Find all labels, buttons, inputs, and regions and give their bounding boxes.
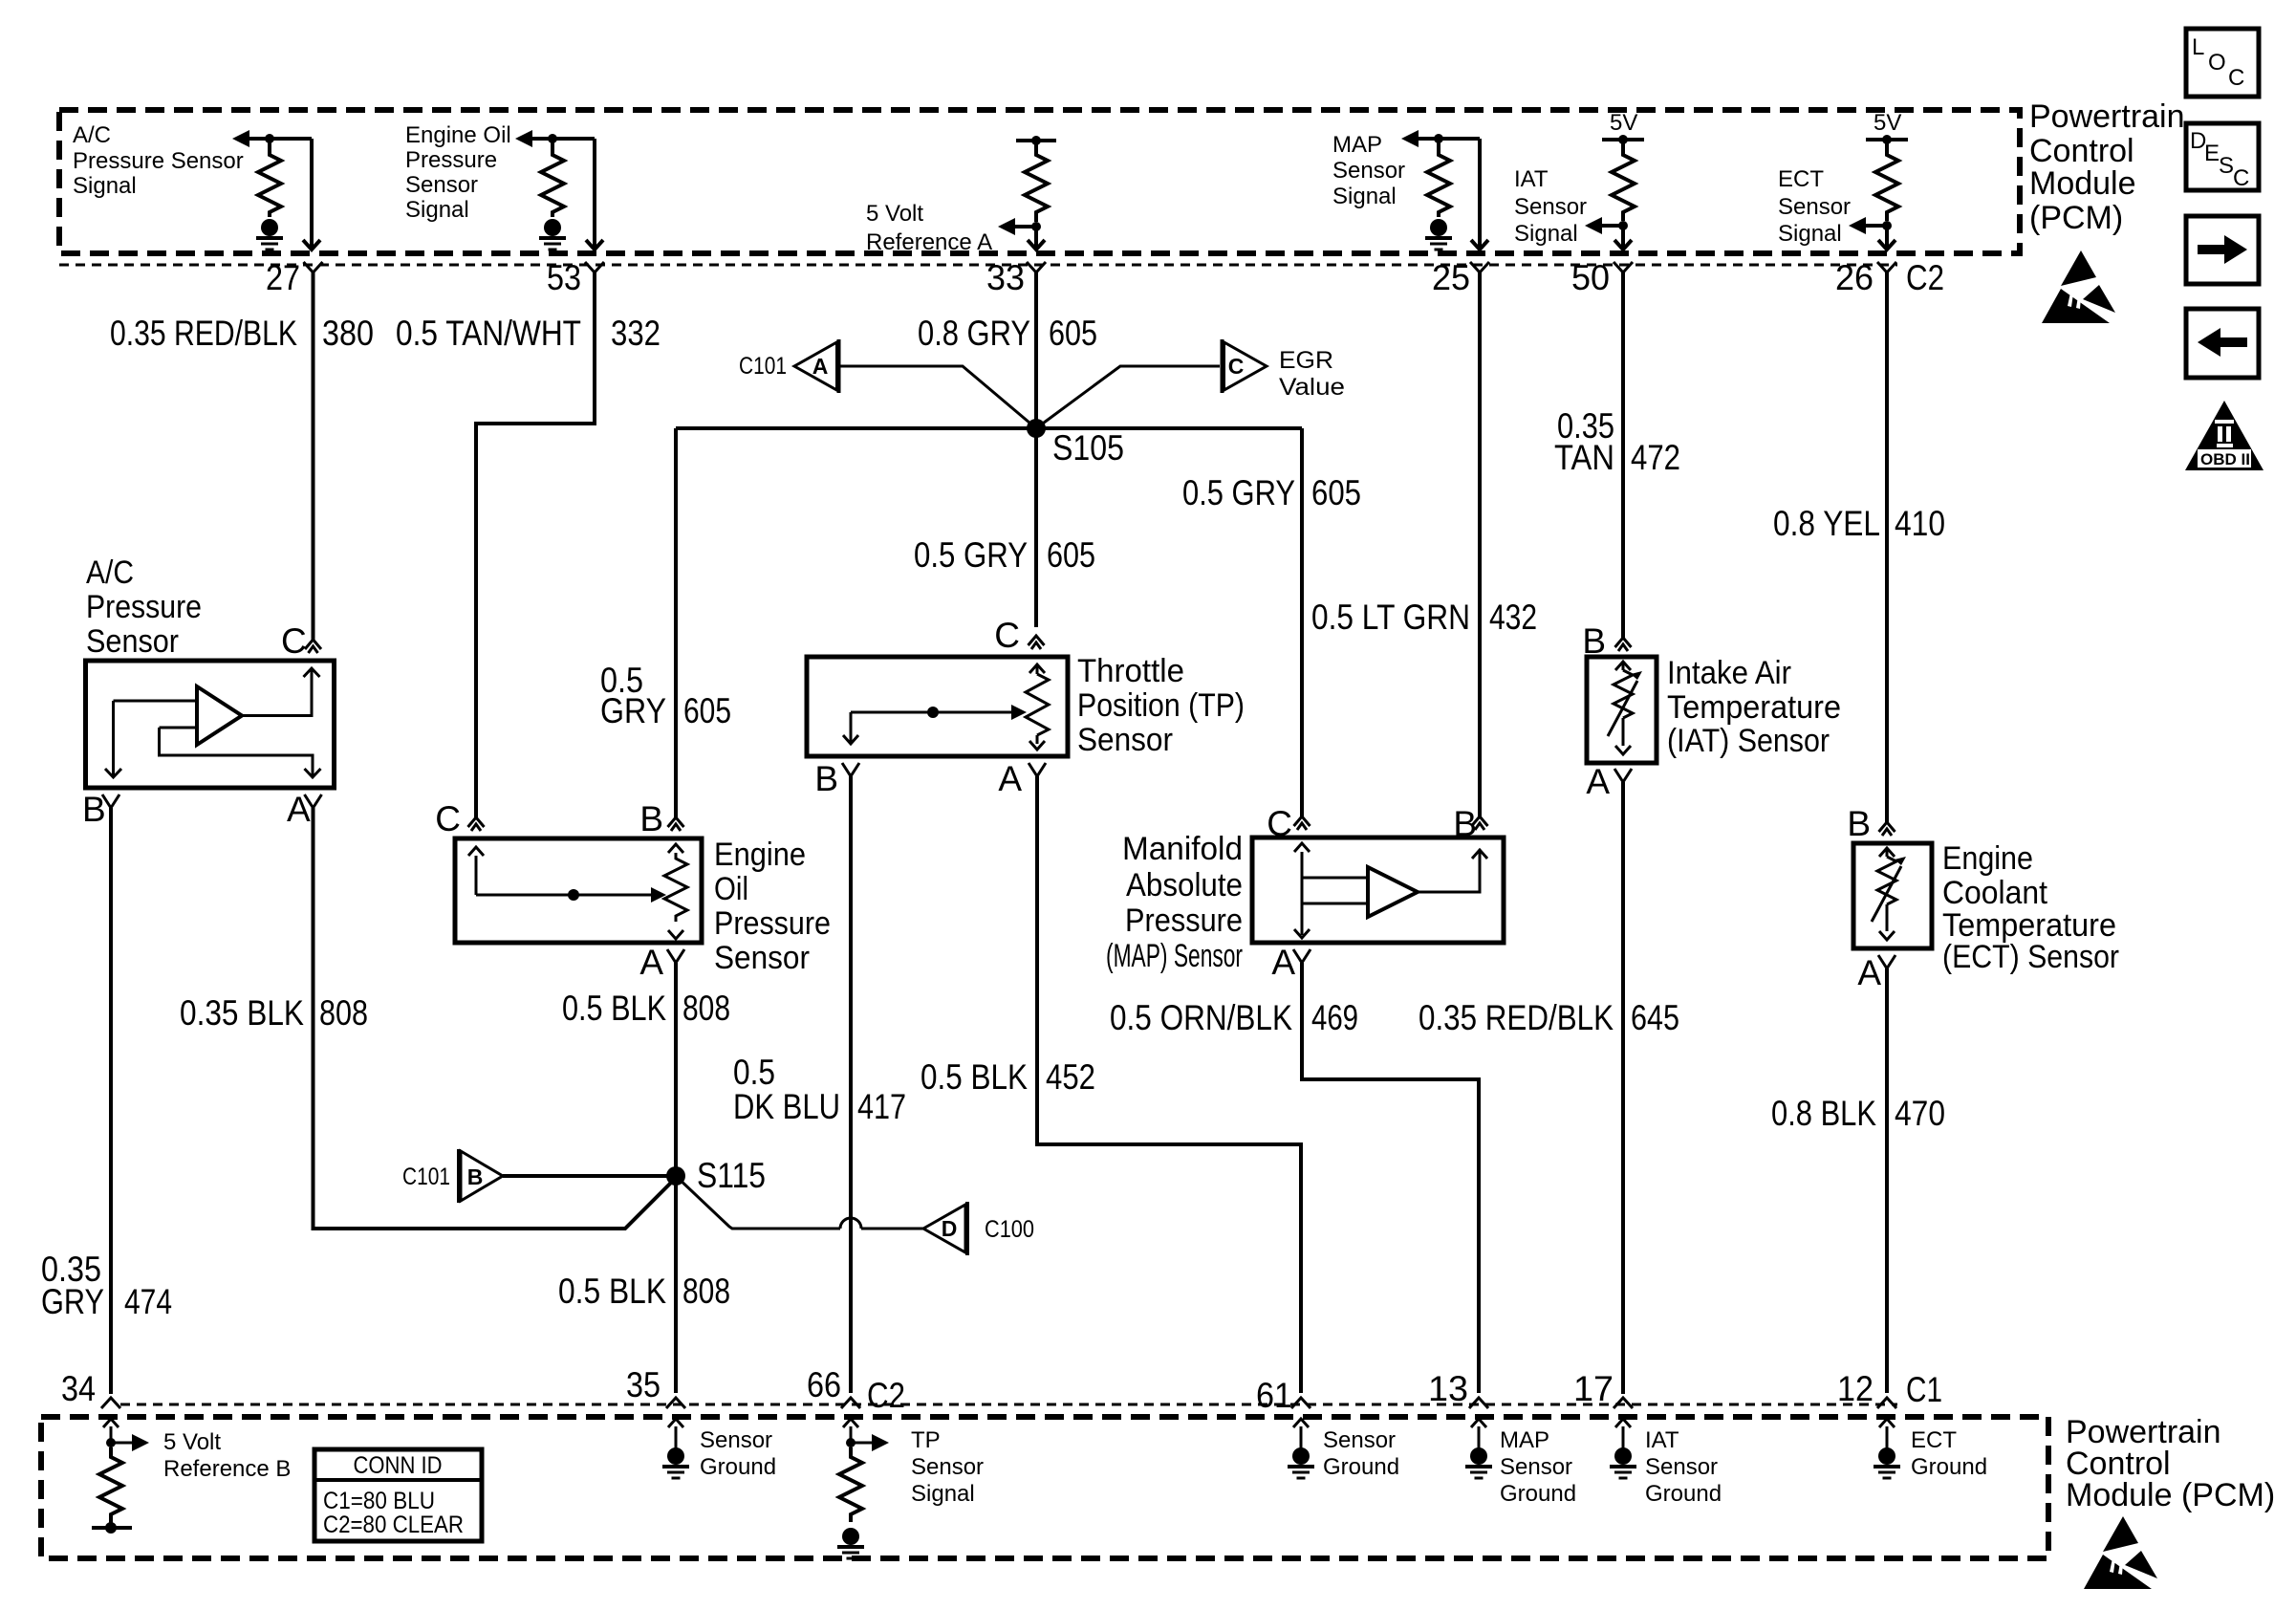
ground for R-AC — [256, 219, 283, 250]
svg-text:C: C — [435, 799, 461, 838]
svg-text:808: 808 — [682, 989, 730, 1028]
svg-text:25: 25 — [1432, 258, 1470, 297]
svg-text:0.35 RED/BLK: 0.35 RED/BLK — [1419, 998, 1614, 1037]
svg-text:452: 452 — [1046, 1057, 1095, 1097]
pin 12 ECT ground symbol — [1874, 1419, 1987, 1480]
svg-text:34: 34 — [61, 1369, 96, 1408]
svg-text:5V: 5V — [1874, 110, 1901, 136]
svg-text:Engine Oil: Engine Oil — [405, 122, 511, 148]
svg-text:808: 808 — [319, 993, 368, 1033]
wire TP B to pin 66 — [849, 776, 853, 1393]
wire A/C B to pin 34 — [109, 808, 113, 1394]
svg-text:605: 605 — [1049, 314, 1097, 353]
svg-text:5V: 5V — [1610, 110, 1637, 136]
pin 12 — [1837, 1369, 1896, 1408]
svg-text:469: 469 — [1311, 998, 1358, 1037]
svg-text:53: 53 — [547, 258, 581, 297]
label 0.5 GRY 605 (MAP C) — [1182, 473, 1361, 512]
svg-text:Manifold: Manifold — [1122, 831, 1243, 867]
pin 61 — [1256, 1376, 1310, 1415]
wire pin33 to S105 — [1034, 272, 1038, 428]
svg-text:Sensor: Sensor — [700, 1427, 772, 1453]
svg-text:Module (PCM): Module (PCM) — [2066, 1477, 2275, 1513]
svg-text:C2: C2 — [1906, 258, 1944, 297]
svg-text:Sensor: Sensor — [1077, 722, 1173, 758]
svg-text:S: S — [2219, 153, 2234, 179]
svg-text:5 Volt: 5 Volt — [163, 1429, 221, 1455]
connector C100 terminal D triangle — [923, 1202, 1034, 1255]
svg-text:C100: C100 — [985, 1216, 1034, 1243]
wire EGR to S105 — [1036, 366, 1220, 428]
Engine Oil sensor title — [714, 837, 831, 976]
IAT sensor title — [1667, 655, 1841, 759]
label 0.5 GRY 605 (EO B) — [600, 661, 731, 730]
svg-text:B: B — [639, 799, 663, 838]
pin 66 TP sensor signal resistor and ground — [837, 1419, 984, 1558]
TP sensor pin C — [994, 616, 1044, 655]
ground for R-MAP — [1425, 219, 1452, 250]
svg-text:Temperature: Temperature — [1667, 689, 1841, 726]
svg-text:A/C: A/C — [86, 555, 134, 591]
label 0.35 BLK 808 — [180, 993, 368, 1033]
TP sensor pin A — [998, 759, 1046, 798]
svg-text:417: 417 — [857, 1087, 906, 1126]
MAP sensor title — [1106, 831, 1243, 974]
A/C sensor amplifier U-AC — [105, 668, 321, 777]
svg-text:Sensor: Sensor — [1514, 194, 1587, 220]
A/C pressure sensor signal text — [73, 122, 244, 199]
svg-text:61: 61 — [1256, 1376, 1292, 1415]
wire pin50 to IAT sensor B — [1621, 272, 1625, 638]
svg-text:Engine: Engine — [1942, 840, 2033, 877]
svg-text:605: 605 — [683, 691, 731, 730]
label 0.5 BLK 808 (S115 to 35) — [558, 1272, 730, 1311]
A/C sensor pin A — [287, 790, 322, 829]
splice S105 — [1027, 419, 1124, 468]
A/C Pressure Sensor title — [86, 555, 202, 660]
TP sensor pin B — [814, 759, 859, 798]
svg-text:Signal: Signal — [73, 173, 137, 199]
svg-text:Sensor: Sensor — [714, 940, 810, 976]
OBD II triangle icon — [2185, 401, 2264, 470]
svg-text:O: O — [2208, 50, 2226, 76]
svg-text:Ground: Ground — [1323, 1454, 1399, 1480]
label 0.5 GRY 605 (TP C) — [914, 535, 1095, 575]
svg-text:Sensor: Sensor — [1332, 158, 1405, 184]
svg-text:Position (TP): Position (TP) — [1077, 687, 1245, 724]
pin 34 — [61, 1369, 120, 1408]
5 Volt Reference A text — [866, 201, 992, 255]
ECT sensor signal text — [1778, 166, 1851, 247]
IAT thermistor — [1608, 662, 1642, 754]
wire C101-A to S105 — [840, 366, 1036, 428]
svg-text:Ground: Ground — [1645, 1481, 1722, 1507]
svg-text:27: 27 — [266, 258, 300, 297]
svg-text:808: 808 — [682, 1272, 730, 1311]
MAP signal pull-up resistor R-MAP in PCM — [1401, 130, 1480, 217]
svg-text:ECT: ECT — [1778, 166, 1824, 192]
ECT sensor title — [1942, 840, 2119, 975]
5V supply and resistor R-ECT in PCM — [1849, 110, 1908, 234]
svg-text:A: A — [1271, 943, 1295, 982]
svg-text:(PCM): (PCM) — [2029, 200, 2123, 236]
wire to pin 27 with down arrow — [303, 139, 320, 250]
right-arrow legend box — [2186, 216, 2259, 284]
Engine oil pressure sensor signal text — [405, 122, 511, 223]
svg-text:26: 26 — [1835, 258, 1874, 297]
ESD symbol bottom right — [2084, 1516, 2157, 1589]
svg-text:Ground: Ground — [700, 1454, 776, 1480]
CONN ID table — [314, 1449, 482, 1541]
label 0.35 RED/BLK 645 — [1419, 998, 1679, 1037]
svg-text:332: 332 — [611, 314, 661, 353]
pin 33 — [986, 258, 1046, 297]
label 0.5 BLK 808 (EO A) — [562, 989, 730, 1028]
svg-text:B: B — [814, 759, 838, 798]
IAT sensor signal text — [1514, 166, 1587, 247]
wire MAP A jog to pin 13 — [1302, 963, 1479, 1393]
svg-text:66: 66 — [807, 1365, 841, 1404]
label 0.35 TAN 472 — [1554, 406, 1680, 477]
wire pin53 jog to Engine Oil C — [476, 272, 595, 817]
svg-text:Value: Value — [1279, 374, 1345, 401]
svg-text:A: A — [998, 759, 1022, 798]
wire S115 branch to C100-D with hop over TP B wire — [676, 1176, 923, 1229]
svg-text:0.35 BLK: 0.35 BLK — [180, 993, 304, 1033]
wire S105 down to TP sensor C — [1034, 428, 1038, 627]
svg-text:C101: C101 — [739, 353, 787, 380]
svg-text:Sensor: Sensor — [1645, 1454, 1718, 1480]
svg-text:A: A — [639, 943, 663, 982]
5V reference A resistor R-33 in PCM — [998, 136, 1056, 235]
EGR Value triangle C — [1223, 339, 1346, 401]
svg-text:0.8 BLK: 0.8 BLK — [1771, 1094, 1876, 1133]
wire to pin 53 with down arrow — [586, 139, 603, 250]
pin 17 — [1573, 1369, 1633, 1408]
svg-text:Intake Air: Intake Air — [1667, 655, 1791, 691]
svg-text:0.5 GRY: 0.5 GRY — [914, 535, 1028, 575]
svg-text:12: 12 — [1837, 1369, 1874, 1408]
wire to pin 33 with down arrow — [1028, 227, 1045, 250]
MAP sensor signal text — [1332, 132, 1405, 209]
svg-text:Control: Control — [2029, 133, 2134, 169]
svg-text:0.8 YEL: 0.8 YEL — [1773, 504, 1880, 543]
svg-text:Signal: Signal — [1514, 221, 1578, 247]
svg-text:Signal: Signal — [1778, 221, 1842, 247]
label 0.5 LT GRN 432 — [1311, 598, 1537, 637]
svg-text:(IAT) Sensor: (IAT) Sensor — [1667, 723, 1830, 759]
pin 25 — [1432, 258, 1489, 297]
svg-text:IAT: IAT — [1514, 166, 1549, 192]
Manifold Absolute Pressure sensor box — [1252, 838, 1504, 943]
TP sensor internal potentiometer — [843, 664, 1049, 750]
IAT sensor pin A — [1586, 762, 1632, 801]
svg-text:0.5: 0.5 — [733, 1053, 775, 1092]
A/C pressure sensor box — [86, 661, 335, 788]
svg-text:MAP: MAP — [1332, 132, 1382, 158]
splice S115 — [666, 1156, 766, 1195]
5 Volt Reference B resistor in PCM — [92, 1419, 291, 1534]
A/C signal pull-up resistor R-AC in PCM — [232, 130, 312, 217]
pin 53 — [547, 258, 604, 297]
svg-text:13: 13 — [1428, 1369, 1468, 1408]
svg-text:Engine: Engine — [714, 837, 806, 873]
pin 35 — [626, 1365, 685, 1408]
label 0.35 RED/BLK 380 — [110, 314, 374, 353]
MAP sensor internal amplifier — [1294, 843, 1487, 938]
svg-text:S115: S115 — [697, 1156, 766, 1195]
Throttle Position sensor box — [807, 657, 1068, 756]
svg-text:Oil: Oil — [714, 871, 748, 907]
svg-text:380: 380 — [322, 314, 374, 353]
Engine Oil sensor pin A — [639, 943, 684, 982]
svg-text:GRY: GRY — [41, 1282, 104, 1321]
MAP sensor pin C — [1267, 804, 1310, 843]
ECT sensor pin A — [1857, 953, 1895, 992]
svg-text:Signal: Signal — [911, 1481, 975, 1507]
svg-text:645: 645 — [1631, 998, 1679, 1037]
svg-text:OBD II: OBD II — [2200, 450, 2250, 468]
svg-text:GRY: GRY — [600, 691, 666, 730]
pin 27 — [266, 258, 323, 297]
svg-text:A: A — [287, 790, 311, 829]
svg-text:Sensor: Sensor — [1778, 194, 1851, 220]
wire ECT A to pin 12 — [1885, 968, 1889, 1393]
svg-text:TAN: TAN — [1554, 438, 1614, 477]
Engine Coolant Temperature sensor box — [1853, 843, 1932, 948]
wire A/C A to S115 — [314, 808, 677, 1229]
svg-text:C1: C1 — [1906, 1370, 1942, 1409]
ground for R-EO — [539, 219, 566, 250]
DESC legend box — [2186, 123, 2259, 191]
svg-text:470: 470 — [1895, 1094, 1945, 1133]
svg-text:605: 605 — [1047, 535, 1095, 575]
PCM bottom dashed box — [41, 1417, 2048, 1558]
IAT sensor pin B — [1582, 621, 1631, 661]
svg-text:0.5 TAN/WHT: 0.5 TAN/WHT — [396, 314, 581, 353]
svg-text:(MAP) Sensor: (MAP) Sensor — [1106, 938, 1243, 974]
Powertrain Control Module (PCM) label bottom right — [2066, 1414, 2275, 1513]
pin 26 — [1835, 258, 1896, 297]
label 0.8 YEL 410 — [1773, 504, 1945, 543]
label 0.8 BLK 470 — [1771, 1094, 1945, 1133]
svg-text:MAP: MAP — [1500, 1427, 1549, 1453]
svg-text:Ground: Ground — [1911, 1454, 1987, 1480]
bottom connector C1/C2 dotted line — [120, 1403, 1897, 1406]
svg-text:Sensor: Sensor — [405, 172, 478, 198]
5V supply and resistor R-IAT in PCM — [1585, 110, 1644, 234]
label 0.5 TAN/WHT 332 — [396, 314, 661, 353]
svg-text:Absolute: Absolute — [1126, 867, 1243, 903]
TP sensor title — [1077, 653, 1245, 758]
wire C101-B to S115 — [503, 1174, 669, 1178]
svg-text:D: D — [942, 1216, 958, 1241]
wire Engine Oil A down to S115 — [674, 963, 678, 1176]
label 0.8 GRY 605 — [918, 314, 1097, 353]
svg-text:Ground: Ground — [1500, 1481, 1576, 1507]
svg-text:Powertrain: Powertrain — [2029, 98, 2185, 135]
svg-text:0.5 ORN/BLK: 0.5 ORN/BLK — [1110, 998, 1292, 1037]
Engine Oil sensor internal potentiometer — [468, 844, 687, 939]
label 0.35 GRY 474 — [41, 1250, 172, 1321]
connector C101 terminal B triangle — [402, 1149, 503, 1203]
svg-text:0.35 RED/BLK: 0.35 RED/BLK — [110, 314, 297, 353]
pin 13 MAP sensor ground symbol — [1465, 1419, 1576, 1507]
svg-text:A/C: A/C — [73, 122, 111, 148]
svg-text:0.5 LT GRN: 0.5 LT GRN — [1311, 598, 1470, 637]
label 0.5 DK BLU 417 — [733, 1053, 906, 1126]
S105 horizontal bus wire — [676, 426, 1302, 430]
A/C sensor pin B — [82, 790, 119, 829]
svg-text:605: 605 — [1311, 473, 1361, 512]
svg-text:C1=80 BLU: C1=80 BLU — [323, 1488, 435, 1514]
svg-text:Signal: Signal — [405, 197, 469, 223]
ESD symbol top right — [2042, 250, 2115, 323]
svg-text:A: A — [812, 354, 829, 379]
svg-text:Pressure: Pressure — [714, 905, 831, 942]
svg-text:A: A — [1586, 762, 1610, 801]
label 0.5 ORN/BLK 469 — [1110, 998, 1358, 1037]
svg-text:C: C — [2228, 65, 2244, 91]
PCM top dashed box — [59, 110, 2020, 253]
wire to pin 26 with down arrow — [1878, 226, 1895, 250]
svg-text:C2: C2 — [867, 1376, 905, 1415]
svg-text:0.5 GRY: 0.5 GRY — [1182, 473, 1295, 512]
svg-text:B: B — [1847, 804, 1871, 843]
svg-text:0.5 BLK: 0.5 BLK — [558, 1272, 666, 1311]
top connector C1/C2 dotted line — [59, 264, 1897, 267]
svg-text:S105: S105 — [1052, 428, 1124, 468]
svg-text:Coolant: Coolant — [1942, 875, 2048, 911]
svg-text:Sensor: Sensor — [1500, 1454, 1572, 1480]
svg-text:Pressure: Pressure — [405, 147, 497, 173]
svg-text:Throttle: Throttle — [1077, 653, 1184, 689]
svg-text:C2=80 CLEAR: C2=80 CLEAR — [323, 1512, 464, 1538]
svg-text:EGR: EGR — [1279, 347, 1333, 374]
svg-text:Sensor: Sensor — [911, 1454, 984, 1480]
pin 17 IAT sensor ground symbol — [1610, 1419, 1722, 1507]
svg-text:E: E — [2204, 141, 2220, 166]
connector C101 terminal A triangle — [739, 339, 839, 393]
svg-text:C101: C101 — [402, 1164, 450, 1190]
svg-text:TP: TP — [911, 1427, 941, 1453]
svg-text:472: 472 — [1631, 438, 1680, 477]
pin 50 — [1571, 258, 1633, 297]
svg-text:A: A — [1857, 953, 1881, 992]
wire S105 right branch down to MAP sensor C — [1300, 428, 1304, 816]
svg-text:Signal: Signal — [1332, 184, 1397, 209]
svg-text:17: 17 — [1573, 1369, 1614, 1408]
wire S105 left branch down to Engine Oil B — [674, 428, 678, 817]
svg-text:5 Volt: 5 Volt — [866, 201, 923, 227]
svg-text:ECT: ECT — [1911, 1427, 1957, 1453]
svg-text:Pressure: Pressure — [86, 589, 202, 625]
label 0.5 BLK 452 — [921, 1057, 1095, 1097]
svg-text:0.5 BLK: 0.5 BLK — [562, 989, 666, 1028]
svg-text:35: 35 — [626, 1365, 661, 1404]
svg-text:C: C — [2233, 165, 2249, 191]
A/C sensor pin C — [281, 621, 321, 661]
svg-text:C: C — [1228, 354, 1245, 379]
MAP sensor pin A — [1271, 943, 1310, 982]
svg-text:Reference A: Reference A — [866, 229, 992, 255]
svg-text:B: B — [467, 1164, 484, 1189]
wire to pin 50 with down arrow — [1614, 226, 1632, 250]
svg-text:432: 432 — [1489, 598, 1537, 637]
svg-text:33: 33 — [986, 258, 1025, 297]
MAP sensor pin B — [1453, 804, 1487, 843]
Engine Oil sensor pin C — [435, 799, 484, 838]
pin 13 — [1428, 1369, 1488, 1408]
Intake Air Temperature sensor box — [1587, 657, 1657, 763]
svg-text:0.5 BLK: 0.5 BLK — [921, 1057, 1028, 1097]
wire pin27 to A/C sensor C — [312, 272, 315, 640]
pin 66 — [807, 1365, 860, 1408]
svg-text:Sensor: Sensor — [1323, 1427, 1396, 1453]
svg-text:Reference B: Reference B — [163, 1456, 291, 1482]
svg-text:474: 474 — [124, 1282, 172, 1321]
pin 61 sensor ground symbol — [1288, 1419, 1399, 1480]
Engine oil signal pull-up resistor R-EO in PCM — [515, 130, 595, 217]
pin 35 sensor ground symbol — [662, 1419, 776, 1480]
wire S115 down to pin 35 — [674, 1176, 678, 1393]
wire to pin 25 with down arrow — [1471, 139, 1488, 250]
svg-text:Pressure: Pressure — [1125, 903, 1243, 939]
svg-text:50: 50 — [1571, 258, 1610, 297]
svg-text:CONN ID: CONN ID — [354, 1452, 443, 1479]
wire pin25 to MAP sensor B — [1478, 272, 1482, 816]
svg-text:410: 410 — [1895, 504, 1945, 543]
svg-text:L: L — [2192, 34, 2204, 60]
ECT sensor pin B — [1847, 804, 1895, 843]
LOC legend box — [2186, 29, 2259, 97]
Powertrain Control Module (PCM) label top right — [2029, 98, 2185, 236]
svg-text:IAT: IAT — [1645, 1427, 1679, 1453]
svg-text:Sensor: Sensor — [86, 623, 179, 660]
svg-text:Module: Module — [2029, 165, 2136, 202]
Engine Oil sensor pin B — [639, 799, 683, 838]
Engine Oil pressure sensor box — [455, 838, 702, 943]
wire TP A jog to pin 61 — [1037, 776, 1301, 1393]
wire pin26 to ECT sensor B — [1885, 272, 1889, 822]
wire IAT A to pin 17 — [1621, 782, 1625, 1394]
svg-text:DK BLU: DK BLU — [733, 1087, 840, 1126]
svg-text:(ECT) Sensor: (ECT) Sensor — [1942, 939, 2119, 975]
svg-text:Pressure Sensor: Pressure Sensor — [73, 148, 244, 174]
svg-text:C: C — [281, 621, 307, 661]
left-arrow legend box — [2186, 309, 2259, 378]
svg-text:0.8 GRY: 0.8 GRY — [918, 314, 1030, 353]
svg-text:C: C — [994, 616, 1020, 655]
ECT thermistor — [1872, 848, 1906, 940]
